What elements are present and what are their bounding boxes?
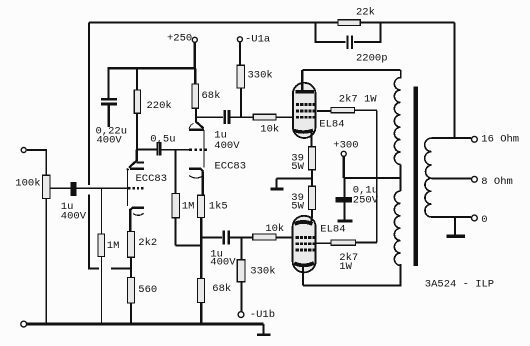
capacitor 0,5u [156, 142, 158, 155]
terminal -U1a [237, 37, 242, 42]
resistor 68k tail [198, 279, 205, 303]
EL84 top grids [296, 103, 316, 119]
wire wiper [50, 187, 128, 189]
capacitor 1u 400V bottom [222, 231, 225, 245]
svg-text:330k: 330k [250, 266, 275, 278]
resistor 330k bottom [240, 238, 242, 260]
svg-text:8 Ohm: 8 Ohm [481, 176, 513, 188]
wire top grid line [196, 116, 293, 118]
svg-text:220k: 220k [147, 100, 172, 112]
resistor 1M grid leak V1b [175, 150, 177, 194]
svg-text:250V: 250V [353, 195, 379, 207]
capacitor 1u 400V top [223, 110, 226, 124]
capacitor 2200p [347, 36, 349, 49]
node 16 Ohm [472, 136, 478, 142]
svg-text:1M: 1M [107, 240, 120, 252]
EL84 top cathode [294, 130, 313, 132]
svg-text:68k: 68k [212, 283, 231, 295]
wire feedback left drop [88, 23, 90, 269]
transformer core [413, 87, 418, 267]
ground cathode [276, 179, 278, 188]
wire input [27, 149, 46, 175]
wire g2 top [317, 110, 377, 178]
input jack [21, 148, 26, 153]
wire EL84 top anode to primary [302, 69, 400, 71]
EL84 bottom grids [296, 236, 316, 251]
wire feedback top [89, 22, 454, 24]
svg-text:2k7 1W: 2k7 1W [339, 94, 378, 106]
svg-text:2200p: 2200p [356, 53, 388, 65]
wire 16 Ohm tap [431, 137, 471, 139]
grid dashes V1b [189, 149, 207, 152]
svg-text:2k2: 2k2 [138, 237, 157, 249]
resistor 1M grid leak V1a [100, 188, 102, 234]
svg-text:3A524 - ILP: 3A524 - ILP [425, 279, 494, 291]
triode V1b cathode [189, 167, 201, 170]
resistor 220k [136, 68, 138, 90]
svg-text:ECC83: ECC83 [215, 161, 247, 173]
potentiometer 100k [43, 175, 51, 198]
wire 8 Ohm tap [431, 177, 471, 179]
resistor 2k7 1W bottom [331, 240, 356, 245]
svg-text:5W: 5W [291, 161, 304, 173]
svg-text:330k: 330k [248, 70, 273, 82]
EL84 bottom cathode [294, 222, 312, 224]
svg-text:100k: 100k [15, 178, 40, 190]
resistor 10k bottom [253, 234, 276, 240]
wire B+ rail [108, 67, 196, 69]
wire 0 tap [431, 216, 471, 218]
node 0 [472, 215, 478, 221]
ground 0,1u [337, 219, 352, 222]
EL84 top anode [296, 90, 315, 93]
capacitor 0,1u 250V [343, 178, 345, 197]
resistor 2k2 [127, 232, 134, 258]
resistor 39 5W top [308, 147, 315, 170]
wire feedback to cathode junction [88, 268, 132, 270]
wire cathode junction [277, 178, 312, 180]
svg-text:-U1a: -U1a [245, 34, 270, 46]
svg-text:400V: 400V [97, 135, 123, 147]
terminal +250 [192, 37, 197, 42]
triode V1b ECC83 anode [196, 122, 203, 128]
svg-text:5W: 5W [291, 201, 304, 213]
svg-text:EL84: EL84 [319, 118, 344, 130]
resistor 68k anode V1b [194, 68, 196, 84]
wire 2200p branch [315, 23, 382, 42]
pentode EL84 bottom envelope [293, 216, 316, 273]
svg-text:560: 560 [138, 284, 157, 296]
wire bottom grid line [201, 237, 292, 239]
svg-text:1k5: 1k5 [209, 201, 228, 213]
terminal -U1b [238, 312, 244, 318]
svg-text:EL84: EL84 [320, 223, 345, 235]
wire 0,5u coupling [137, 148, 156, 150]
wire EL84 bottom anode to primary [303, 264, 401, 286]
ground bus [21, 321, 27, 327]
wire feedback right drop [453, 23, 455, 139]
capacitor 0,22u 400V [107, 68, 109, 98]
svg-text:0,5u: 0,5u [150, 134, 175, 146]
svg-text:10k: 10k [260, 124, 279, 136]
svg-text:10k: 10k [265, 223, 284, 235]
triode V1a cathode [132, 206, 144, 208]
transformer primary winding [394, 70, 400, 164]
svg-text:-U1b: -U1b [250, 309, 275, 321]
svg-text:1M: 1M [182, 201, 195, 213]
svg-text:16 Ohm: 16 Ohm [481, 134, 519, 146]
grid dashes V1a [128, 187, 143, 189]
triode V1a ECC83 [135, 149, 137, 161]
resistor 10k top [253, 114, 276, 120]
resistor 39 5W bottom [308, 186, 315, 209]
svg-text:400V: 400V [210, 257, 236, 269]
svg-text:ECC83: ECC83 [136, 173, 168, 185]
pentode EL84 top envelope [293, 83, 316, 138]
node 8 Ohm [472, 176, 478, 182]
svg-text:400V: 400V [214, 140, 240, 152]
transformer secondary winding [425, 138, 432, 217]
svg-text:1W: 1W [339, 261, 352, 273]
terminal +300 [341, 151, 346, 156]
ground secondary [454, 217, 456, 235]
svg-text:+300: +300 [333, 140, 358, 152]
wire pot bottom [45, 199, 47, 323]
wire g2 bottom [317, 178, 377, 243]
resistor 330k top [237, 65, 245, 88]
chassis ground [263, 324, 265, 334]
svg-text:400V: 400V [61, 211, 87, 223]
resistor 1k5 [198, 195, 205, 217]
EL84 bottom anode [294, 263, 314, 265]
capacitor 1u 400V input [71, 182, 77, 196]
svg-text:+250: +250 [167, 33, 192, 45]
resistor 560 [127, 278, 134, 304]
wire +300 rail to center tap [344, 177, 401, 179]
resistor 2k7 1W top [331, 108, 354, 113]
svg-text:68k: 68k [202, 90, 221, 102]
svg-text:22k: 22k [356, 7, 375, 19]
resistor 22k [338, 20, 360, 26]
svg-text:0: 0 [481, 214, 487, 226]
